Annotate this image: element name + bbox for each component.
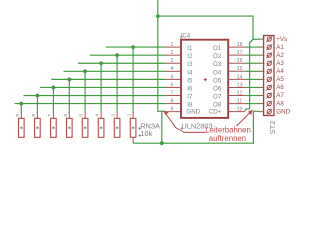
svg-text:O4: O4 <box>213 69 222 76</box>
wire input net to pin 5 <box>51 78 165 80</box>
wire resistor column 1 riser <box>20 104 22 113</box>
junction dot column 6 <box>99 61 103 65</box>
svg-text:O7: O7 <box>213 94 222 101</box>
resistor internal cross 2 <box>132 127 134 129</box>
resistor internal cross 5 <box>84 127 86 129</box>
svg-text:A7: A7 <box>276 92 284 99</box>
wire resistor column 4 riser <box>68 79 70 112</box>
annotation leader line left <box>164 112 205 132</box>
wire GND drop to bottom rail <box>161 111 163 143</box>
svg-text:A6: A6 <box>276 84 284 91</box>
pad ST2 pin 10 <box>267 110 271 114</box>
wire CD+ stub diagonal <box>244 109 246 111</box>
pad ST2 pin 9 <box>267 101 271 105</box>
junction dot column 1 <box>19 102 23 106</box>
svg-text:I2: I2 <box>187 53 193 60</box>
pin 6 lead (left) <box>166 86 181 88</box>
svg-text:I3: I3 <box>187 61 193 68</box>
annotation leader line right <box>237 111 252 127</box>
wire O5 to ST2 pad 6 <box>245 78 259 80</box>
wire top horizontal to connector column <box>158 15 253 17</box>
svg-text:4: 4 <box>171 66 174 72</box>
origin cross ULN2803 <box>181 127 184 129</box>
svg-text:A3: A3 <box>276 60 284 67</box>
pin 15 lead (right) <box>228 70 245 72</box>
pin 3 lead (left) <box>166 62 181 64</box>
pin 14 lead (right) <box>228 78 245 80</box>
wire O6 to ST2 pad 7 <box>245 86 259 88</box>
resistor RN3 element 2 body <box>130 118 136 137</box>
resistor RN3 pin 7 lead <box>52 112 54 118</box>
wire input net to pin 2 <box>90 54 166 56</box>
resistor RN3 pin 3 lead <box>116 112 118 118</box>
svg-text:11: 11 <box>237 98 242 104</box>
svg-text:I1: I1 <box>187 45 193 52</box>
origin cross RN3A <box>138 128 141 130</box>
svg-text:5: 5 <box>79 114 85 117</box>
svg-text:A4: A4 <box>276 68 284 75</box>
junction dot column 4 <box>67 77 71 81</box>
wire riser ST2 GND pad to rail <box>252 111 254 144</box>
svg-text:A1: A1 <box>276 44 284 51</box>
pin 1 lead (left) <box>166 46 181 48</box>
resistor RN3 pin 2 lead <box>132 112 134 118</box>
svg-text:14: 14 <box>237 74 243 80</box>
resistor RN3 element 6 body <box>67 118 73 137</box>
pad lead ST2 pin 2 <box>259 46 264 48</box>
resistor RN3 element 5 body <box>82 118 88 137</box>
svg-text:5: 5 <box>171 74 174 80</box>
svg-text:10k: 10k <box>140 129 152 138</box>
svg-text:4: 4 <box>95 114 101 117</box>
wire GND pin9 stub <box>157 110 166 112</box>
junction dot column 2 <box>36 94 40 98</box>
wire input net to pin 3 <box>78 62 166 64</box>
wire O8 to ST2 pad 9 <box>245 103 259 105</box>
pin 5 lead (left) <box>166 78 181 80</box>
resistor RN3 pin 6 lead <box>68 112 70 118</box>
resistor internal cross 6 <box>68 127 70 129</box>
wire input net to pin 8 <box>15 103 166 105</box>
svg-text:CD+: CD+ <box>209 108 222 115</box>
wire CD+ pin stub <box>245 108 249 110</box>
svg-text:6: 6 <box>171 82 174 88</box>
wire resistor column 3 riser <box>52 87 54 112</box>
wire input net to pin 4 <box>64 70 166 72</box>
svg-text:I7: I7 <box>187 94 193 101</box>
wire O1 to ST2 pad 2 <box>245 46 259 48</box>
pad lead ST2 pin 6 <box>259 78 264 80</box>
resistor internal cross 8 <box>36 127 38 129</box>
svg-text:2: 2 <box>127 114 133 117</box>
junction dot column 7 <box>115 53 119 57</box>
resistor RN3 element 4 body <box>98 118 104 137</box>
svg-text:7: 7 <box>171 90 174 96</box>
svg-text:17: 17 <box>237 50 243 56</box>
svg-text:O2: O2 <box>213 53 222 60</box>
op IC U: ULN2803 IC4 box <box>181 40 228 118</box>
resistor internal cross 3 <box>116 127 118 129</box>
pad ST2 pin 5 <box>267 69 271 73</box>
svg-text:8: 8 <box>31 114 37 117</box>
pin 17 lead (right) <box>228 54 245 56</box>
svg-text:A2: A2 <box>276 52 284 59</box>
wire resistor column 5 riser <box>84 71 86 112</box>
wire resistor column 7 riser <box>116 55 118 112</box>
resistor internal cross 9 <box>20 127 22 129</box>
pin 12 lead (right) <box>228 95 245 97</box>
junction dot column 3 <box>52 86 56 90</box>
pad ST2 pin 4 <box>267 61 271 65</box>
pad ST2 pin 8 <box>267 93 271 97</box>
resistor internal cross 7 <box>52 127 54 129</box>
pad ST2 pin 2 <box>267 45 271 49</box>
resistor RN3 pin 9 lead <box>20 112 22 118</box>
pin 16 lead (right) <box>228 62 245 64</box>
pin 13 lead (right) <box>228 86 245 88</box>
wire O2 to ST2 pad 3 <box>245 54 259 56</box>
wire vertical x=253 down to +Vs pad row <box>252 16 254 40</box>
svg-text:O5: O5 <box>213 77 222 84</box>
wire resistor column 8 riser <box>132 47 134 112</box>
svg-text:I5: I5 <box>187 77 193 84</box>
pad lead ST2 pin 4 <box>259 62 264 64</box>
svg-text:12: 12 <box>237 90 243 96</box>
pin 2 lead (left) <box>166 54 181 56</box>
svg-text:9: 9 <box>171 107 174 113</box>
svg-text:16: 16 <box>237 58 243 64</box>
svg-text:+Vs: +Vs <box>276 36 287 43</box>
svg-text:13: 13 <box>237 82 243 88</box>
IC center origin cross <box>204 79 207 81</box>
pin 18 lead (right) <box>228 46 245 48</box>
svg-text:A8: A8 <box>276 100 284 107</box>
pad ST2 pin 7 <box>267 85 271 89</box>
svg-text:GND: GND <box>276 108 290 115</box>
svg-text:I4: I4 <box>187 69 193 76</box>
wire diagonal jog <box>250 39 254 43</box>
svg-text:IC4: IC4 <box>181 32 191 39</box>
pad lead ST2 pin 9 <box>259 103 264 105</box>
svg-text:2: 2 <box>171 50 174 56</box>
svg-text:O3: O3 <box>213 61 222 68</box>
wire input net to pin 6 <box>40 86 166 88</box>
svg-text:O1: O1 <box>213 45 222 52</box>
arrowhead right <box>248 110 253 115</box>
wire GND vertical from sheet top <box>157 0 159 111</box>
svg-text:10: 10 <box>237 107 243 113</box>
connector ST2 box <box>264 36 274 116</box>
arrowhead left <box>163 111 169 116</box>
origin cross IC4 <box>180 36 183 38</box>
svg-text:A5: A5 <box>276 76 284 83</box>
pad ST2 pin 6 <box>267 77 271 81</box>
pin 4 lead (left) <box>166 70 181 72</box>
wire input net to pin 1 <box>106 46 166 48</box>
wire input net to pin 7 <box>24 95 166 97</box>
svg-text:15: 15 <box>237 66 243 72</box>
svg-text:18: 18 <box>237 42 243 48</box>
origin cross 10k <box>139 135 142 137</box>
pad lead ST2 pin 7 <box>259 86 264 88</box>
resistor RN3 element 8 body <box>35 118 41 137</box>
pad lead ST2 pin 10 <box>259 111 264 113</box>
wire resistor column 2 riser <box>36 96 38 113</box>
wire O7 to ST2 pad 8 <box>245 95 259 97</box>
svg-text:6: 6 <box>63 114 69 117</box>
wire O4 to ST2 pad 5 <box>245 70 259 72</box>
resistor RN3 pin 5 lead <box>84 112 86 118</box>
resistor internal cross 4 <box>100 127 102 129</box>
junction dot bottom rail <box>160 141 164 145</box>
svg-text:auftrennen: auftrennen <box>209 134 246 143</box>
wire resistor column 6 riser <box>100 63 102 112</box>
wire vertical x=249.5 CD+ riser <box>249 43 251 109</box>
svg-text:O6: O6 <box>213 85 222 92</box>
svg-text:8: 8 <box>171 98 174 104</box>
svg-text:3: 3 <box>111 114 117 117</box>
wire ST2 GND pad stub <box>253 110 259 112</box>
resistor RN3 element 9 body <box>19 118 25 137</box>
junction dot GND top <box>156 14 160 18</box>
wire O3 to ST2 pad 4 <box>245 62 259 64</box>
svg-text:1: 1 <box>171 42 174 48</box>
svg-text:I6: I6 <box>187 85 193 92</box>
pad ST2 pin 3 <box>267 53 271 57</box>
pin 7 lead (left) <box>166 95 181 97</box>
junction dot column 5 <box>83 69 87 73</box>
junction dot column 8 <box>131 45 135 49</box>
wire to +Vs pad <box>253 38 260 40</box>
pin 11 lead (right) <box>228 103 245 105</box>
pad lead ST2 pin 5 <box>259 70 264 72</box>
pad lead ST2 pin 3 <box>259 54 264 56</box>
pad lead ST2 pin 1 <box>259 38 264 40</box>
resistor RN3 pin 2 bottom lead <box>132 137 134 143</box>
pad lead ST2 pin 8 <box>259 95 264 97</box>
resistor RN3 pin 4 lead <box>100 112 102 118</box>
wire bottom GND rail <box>133 142 253 144</box>
pin 8 lead (left) <box>166 103 181 105</box>
resistor RN3 element 3 body <box>114 118 120 137</box>
svg-text:7: 7 <box>47 114 53 117</box>
svg-text:3: 3 <box>171 58 174 64</box>
pin 9 lead (left) <box>166 111 181 113</box>
svg-text:GND: GND <box>186 108 200 115</box>
resistor RN3 pin 8 lead <box>36 112 38 118</box>
pin 10 lead (right) <box>228 111 245 113</box>
pad ST2 pin 1 <box>267 37 271 41</box>
svg-text:ST2: ST2 <box>268 120 277 134</box>
resistor RN3 element 7 body <box>51 118 57 137</box>
svg-text:9: 9 <box>15 114 21 117</box>
